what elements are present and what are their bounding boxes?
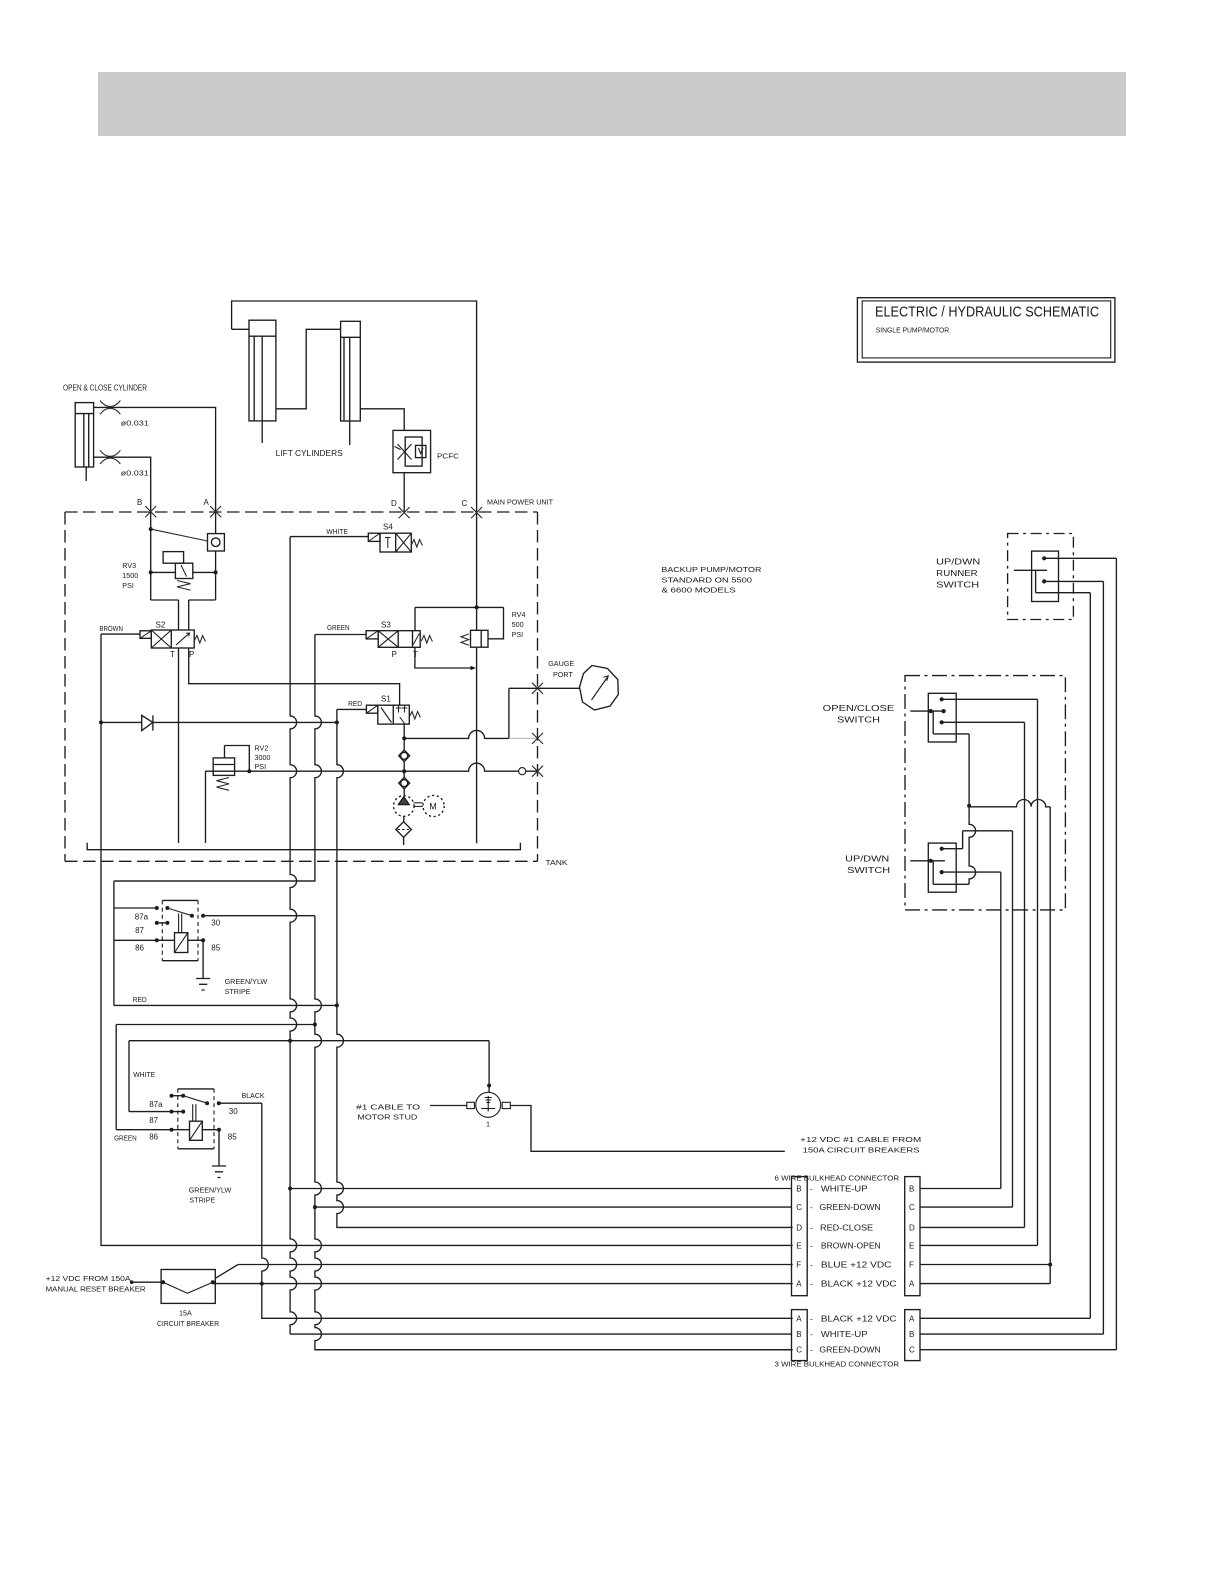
svg-text:PSI: PSI	[512, 630, 524, 639]
RV2 spring	[217, 778, 230, 791]
svg-text:RV2: RV2	[255, 744, 269, 753]
main power unit dashed enclosure	[65, 512, 538, 861]
svg-text:ø0.031: ø0.031	[121, 469, 149, 478]
runner switch pole	[1014, 570, 1090, 592]
connector J4 right body	[905, 1310, 920, 1361]
svg-text:C: C	[796, 1203, 802, 1212]
wire black 30 lead	[219, 1102, 262, 1104]
svg-text:PSI: PSI	[255, 762, 267, 771]
tank port circle	[519, 768, 526, 775]
connector J2 right body	[905, 1177, 920, 1296]
svg-text:BLACK +12 VDC: BLACK +12 VDC	[821, 1280, 897, 1289]
relay K1 terminal 87a	[155, 906, 159, 910]
svg-text:86: 86	[149, 1133, 158, 1142]
S4 spring	[411, 540, 422, 548]
port marker A	[210, 506, 221, 517]
pilot diagonal to check valve	[151, 529, 208, 541]
svg-text:15A: 15A	[179, 1309, 192, 1318]
wire white solenoid lead	[290, 536, 368, 538]
svg-text:B: B	[909, 1330, 914, 1339]
relay K1 arm	[167, 908, 192, 916]
wire S2 pressure line	[189, 648, 400, 705]
svg-text:BLACK +12 VDC: BLACK +12 VDC	[821, 1314, 897, 1323]
node dot red feed	[335, 1003, 339, 1007]
flow control PCFC	[393, 430, 431, 472]
ground GND2	[212, 1166, 226, 1178]
relief valve RV2	[213, 746, 249, 776]
svg-text:PCFC: PCFC	[437, 452, 459, 461]
svg-text:D: D	[391, 499, 397, 508]
solenoid valve S2	[140, 630, 194, 648]
title block	[857, 298, 1115, 362]
svg-text:+12 VDC #1 CABLE FROM: +12 VDC #1 CABLE FROM	[800, 1135, 921, 1144]
svg-text:86: 86	[135, 944, 144, 953]
wire J2 pin F	[920, 1264, 1050, 1266]
check valve CV1	[208, 534, 225, 551]
wire F line left	[238, 1264, 793, 1266]
filter F1	[396, 822, 412, 838]
svg-text:E: E	[796, 1241, 801, 1250]
wire up/dwn NO to J2C	[942, 831, 1013, 1207]
svg-text:-: -	[810, 1330, 813, 1339]
node dot black A junction	[260, 1282, 264, 1286]
wire PCFC to D	[403, 473, 405, 512]
RV3 spring	[177, 581, 191, 591]
node dot stud top	[487, 1084, 491, 1088]
svg-text:#1 CABLE TO: #1 CABLE TO	[356, 1103, 421, 1112]
wire breaker to F diagonal	[215, 1265, 238, 1279]
orifice symbol 1	[100, 401, 120, 415]
wire B line inside unit	[150, 512, 152, 600]
svg-text:WHITE-UP: WHITE-UP	[821, 1185, 868, 1194]
relay K1 terminal 30	[190, 914, 194, 918]
svg-text:GREEN-DOWN: GREEN-DOWN	[819, 1346, 881, 1355]
wire runner NO to J4C	[1044, 558, 1116, 1349]
port marker gauge	[532, 683, 543, 694]
svg-text:A: A	[909, 1280, 915, 1289]
wire relay K1 30 to green column	[203, 915, 315, 917]
wire white horizontal to stud	[129, 1040, 489, 1042]
svg-text:A: A	[796, 1314, 802, 1323]
svg-text:BLUE +12 VDC: BLUE +12 VDC	[821, 1261, 892, 1270]
svg-text:S1: S1	[381, 695, 391, 704]
header gray bar	[98, 72, 1126, 136]
lift cylinder 1	[249, 320, 276, 443]
wire up/dwn NC to J2B	[942, 872, 1001, 1188]
wire green lower vertical	[315, 916, 793, 1350]
port marker C	[471, 507, 482, 518]
wire J2 pin A	[920, 1265, 1050, 1284]
diode D1	[101, 715, 337, 730]
wire S3 tank loop	[415, 647, 471, 668]
svg-text:RED-CLOSE: RED-CLOSE	[820, 1223, 873, 1232]
solenoid valve S4	[368, 533, 411, 552]
node dot brown diode	[99, 720, 103, 724]
wire J1 pin C left	[315, 1206, 792, 1208]
svg-text:BLACK: BLACK	[242, 1091, 265, 1100]
runner switch contacts	[1042, 556, 1046, 560]
svg-text:E: E	[909, 1241, 914, 1250]
svg-text:RUNNER: RUNNER	[936, 569, 978, 578]
svg-text:WHITE: WHITE	[326, 527, 348, 536]
svg-text:C: C	[909, 1346, 915, 1355]
svg-text:500: 500	[512, 620, 524, 629]
node dot RV2 pilot	[247, 769, 251, 773]
port marker drain	[532, 733, 543, 744]
RV4 spring	[461, 634, 469, 645]
svg-text:A: A	[204, 498, 210, 507]
svg-text:F: F	[796, 1261, 801, 1270]
wire open/close NC to J2D	[942, 722, 1025, 1227]
wire J3 pin C left	[315, 1349, 792, 1351]
wire J1 pin B left	[290, 1188, 791, 1190]
wire relay K2 feed top	[116, 1024, 315, 1026]
wire RV2 drain drop	[205, 771, 207, 843]
connector J1 left body	[792, 1177, 808, 1296]
relief valve RV4	[415, 607, 504, 647]
pump shaft	[414, 803, 423, 807]
relay K2 terminal 87a	[172, 1095, 184, 1097]
wire J2 pin B	[920, 1188, 1001, 1190]
wire relay K2 left vertical	[115, 1025, 117, 1130]
wire open/close common down	[968, 734, 970, 806]
open/close pole	[910, 711, 969, 734]
wire white drop to relay K2	[129, 1041, 183, 1112]
wire brown solenoid lead	[101, 633, 140, 635]
svg-text:RV4: RV4	[512, 610, 526, 619]
svg-text:SWITCH: SWITCH	[837, 716, 880, 725]
svg-text:ø0.031: ø0.031	[121, 419, 149, 428]
svg-text:PORT: PORT	[553, 670, 573, 679]
wire S2 tank drain	[178, 648, 180, 843]
svg-text:STRIPE: STRIPE	[189, 1196, 215, 1205]
up/dwn pole	[910, 861, 945, 885]
svg-text:A: A	[909, 1314, 915, 1323]
node dot white junction	[288, 1039, 292, 1043]
svg-text:87: 87	[135, 926, 144, 935]
svg-text:GAUGE: GAUGE	[548, 659, 574, 668]
svg-text:30: 30	[229, 1107, 238, 1116]
svg-text:-: -	[810, 1314, 813, 1323]
svg-text:OPEN/CLOSE: OPEN/CLOSE	[823, 704, 895, 713]
lift cylinders manifold box	[232, 301, 477, 512]
svg-text:SWITCH: SWITCH	[847, 866, 890, 875]
svg-text:A: A	[796, 1280, 802, 1289]
relief valve RV3	[151, 552, 216, 600]
wire J2 pin E	[920, 1244, 1038, 1246]
svg-text:P: P	[189, 650, 194, 659]
wire red solenoid lead	[337, 708, 367, 710]
svg-text:3000: 3000	[255, 753, 271, 762]
wire J3 pin B left	[290, 1333, 791, 1335]
wire faint drain stub	[509, 737, 538, 739]
svg-text:-: -	[810, 1203, 813, 1212]
svg-text:WHITE: WHITE	[133, 1070, 155, 1079]
svg-text:S3: S3	[381, 621, 391, 630]
open/close cylinder	[75, 403, 93, 481]
wire breaker input	[132, 1281, 161, 1283]
svg-text:SWITCH: SWITCH	[936, 581, 979, 590]
wire J4 pin A	[920, 1317, 1090, 1319]
S2 spring	[194, 636, 205, 644]
svg-text:1: 1	[486, 1120, 490, 1129]
control switches dash-dot box	[905, 676, 1065, 910]
svg-text:C: C	[462, 499, 468, 508]
svg-text:UP/DWN: UP/DWN	[845, 855, 889, 864]
wire green solenoid lead	[315, 634, 366, 636]
svg-text:GREEN: GREEN	[327, 623, 350, 632]
relay K2 coil	[190, 1104, 203, 1140]
wire white vertical main run	[290, 537, 297, 1335]
svg-text:C: C	[909, 1203, 915, 1212]
svg-text:CIRCUIT BREAKER: CIRCUIT BREAKER	[157, 1319, 219, 1328]
svg-text:BROWN: BROWN	[99, 624, 123, 633]
node dot RV3 left	[149, 570, 153, 574]
svg-text:85: 85	[211, 944, 220, 953]
wire relay K1 left vertical	[113, 881, 115, 1005]
runner switch dashed box	[1008, 534, 1074, 620]
svg-text:87a: 87a	[149, 1100, 163, 1109]
relay K2 box	[178, 1089, 214, 1149]
wire common to F column	[969, 800, 1050, 1265]
relay K2 terminal 87	[170, 1110, 174, 1114]
wire black vertical	[262, 1103, 793, 1318]
svg-text:30: 30	[211, 919, 220, 928]
svg-text:GREEN/YLW: GREEN/YLW	[225, 977, 268, 986]
wire D line S1 to pump	[403, 724, 405, 796]
svg-text:MAIN POWER UNIT: MAIN POWER UNIT	[487, 498, 554, 507]
svg-text:GREEN-DOWN: GREEN-DOWN	[819, 1203, 881, 1212]
svg-text:B: B	[796, 1185, 801, 1194]
svg-text:RED: RED	[133, 995, 147, 1004]
node dot common junction	[967, 804, 971, 808]
node dot white pin B	[288, 1187, 292, 1191]
S3 spring	[421, 636, 432, 644]
wire stud to breaker cable	[510, 1106, 785, 1152]
solenoid valve S1	[366, 705, 409, 724]
wire red relay feed	[114, 1004, 337, 1006]
wire relay K2 86 lead	[116, 1129, 189, 1131]
tank symbol	[87, 843, 520, 850]
relay K2 arm	[183, 1096, 207, 1104]
motor M1	[423, 795, 444, 816]
relay K1 coil	[175, 914, 188, 953]
wire J2 pin C	[920, 1206, 1013, 1208]
runner switch body	[1032, 551, 1059, 601]
wire brown vertical to connector E	[101, 634, 793, 1245]
svg-text:WHITE-UP: WHITE-UP	[821, 1330, 868, 1339]
svg-text:T: T	[170, 650, 175, 659]
svg-text:MANUAL RESET BREAKER: MANUAL RESET BREAKER	[46, 1285, 146, 1294]
svg-text:& 6600 MODELS: & 6600 MODELS	[661, 586, 736, 595]
wire green upper vertical	[114, 635, 322, 882]
svg-text:-: -	[810, 1280, 813, 1289]
svg-text:-: -	[810, 1185, 813, 1194]
wire stud label lead	[430, 1105, 467, 1107]
circuit breaker CB1	[161, 1270, 215, 1304]
svg-text:LIFT CYLINDERS: LIFT CYLINDERS	[276, 449, 343, 458]
node dot B pilot	[149, 527, 153, 531]
node dot D gauge branch	[402, 736, 406, 740]
svg-text:B: B	[909, 1185, 914, 1194]
svg-text:SINGLE PUMP/MOTOR: SINGLE PUMP/MOTOR	[876, 326, 950, 335]
wire common continued to updwn pole	[933, 806, 975, 885]
node dot diode red	[335, 720, 339, 724]
svg-text:-: -	[810, 1346, 813, 1355]
node dot K2 feed green	[313, 1023, 317, 1027]
wire relay K1 85 to ground	[188, 940, 203, 978]
svg-text:STANDARD ON 5500: STANDARD ON 5500	[661, 575, 752, 584]
wire pump suction	[403, 816, 405, 845]
wire runner NC to J4B	[1044, 581, 1103, 1334]
svg-text:S2: S2	[156, 621, 166, 630]
svg-text:-: -	[810, 1241, 813, 1250]
svg-text:C: C	[796, 1346, 802, 1355]
svg-text:S4: S4	[383, 523, 393, 532]
wire RV3 to S2 drops	[179, 600, 189, 630]
wire open/close NO to J2E	[942, 699, 1038, 1245]
wire A line inside unit	[215, 512, 217, 600]
svg-text:P: P	[392, 650, 397, 659]
svg-text:-: -	[810, 1223, 813, 1232]
wire relay K1 feed top	[114, 880, 315, 882]
check valve ball lower	[399, 777, 410, 789]
wire cylinder port A	[94, 407, 216, 512]
wire runner common to J4A	[1089, 593, 1091, 1319]
svg-text:GREEN/YLW: GREEN/YLW	[189, 1186, 232, 1195]
S1 spring	[409, 712, 420, 720]
port marker D	[399, 507, 410, 518]
wire cyl1 to cyl2	[276, 329, 341, 409]
svg-text:F: F	[909, 1261, 914, 1270]
svg-text:85: 85	[228, 1133, 237, 1142]
wire relay K1 87a lead	[114, 907, 157, 909]
relay K1 box	[162, 900, 198, 960]
wire red vertical main run	[337, 709, 793, 1227]
svg-text:B: B	[796, 1330, 801, 1339]
orifice symbol 2	[100, 450, 120, 464]
arrow into C line	[471, 666, 477, 670]
svg-text:BROWN-OPEN: BROWN-OPEN	[821, 1241, 881, 1250]
svg-text:PSI: PSI	[122, 581, 134, 590]
up/dwn switch body	[928, 843, 956, 892]
wire J4 pin C	[920, 1349, 1116, 1351]
lift cylinder 2	[341, 321, 361, 445]
svg-text:UP/DWN: UP/DWN	[936, 558, 980, 567]
check valve ball upper	[399, 750, 410, 762]
open/close contacts	[940, 697, 944, 701]
svg-text:1500: 1500	[122, 571, 138, 580]
svg-text:BACKUP PUMP/MOTOR: BACKUP PUMP/MOTOR	[661, 565, 761, 574]
svg-text:ELECTRIC / HYDRAULIC SCHEMATIC: ELECTRIC / HYDRAULIC SCHEMATIC	[875, 305, 1099, 321]
svg-text:D: D	[796, 1223, 802, 1232]
svg-text:TANK: TANK	[546, 858, 568, 867]
solenoid valve S3	[366, 631, 420, 648]
node dot green pin C	[313, 1205, 317, 1209]
wire C line vertical	[476, 512, 478, 843]
node dot RV4 C	[475, 605, 479, 609]
svg-text:+12 VDC FROM 150A: +12 VDC FROM 150A	[46, 1274, 131, 1283]
svg-text:STRIPE: STRIPE	[225, 987, 251, 996]
open/close switch body	[928, 693, 956, 742]
svg-text:OPEN & CLOSE CYLINDER: OPEN & CLOSE CYLINDER	[63, 384, 147, 393]
wire relay K2 85 to ground	[202, 1130, 219, 1166]
motor stud MS1	[467, 1041, 511, 1118]
wire breaker output A line	[213, 1283, 793, 1285]
svg-text:RV3: RV3	[122, 561, 136, 570]
svg-text:-: -	[810, 1261, 813, 1270]
wire cylinder port B	[94, 457, 151, 512]
node dot RV3 right	[214, 570, 218, 574]
svg-text:GREEN: GREEN	[114, 1134, 137, 1143]
svg-text:D: D	[909, 1223, 915, 1232]
connector J3 left body	[792, 1310, 808, 1361]
wire relay K1 86 lead	[114, 939, 175, 941]
wire gauge line	[509, 687, 580, 689]
breaker terminal dots	[161, 1280, 165, 1284]
svg-text:MOTOR STUD: MOTOR STUD	[357, 1113, 417, 1122]
wire cyl2 to PCFC	[360, 409, 404, 431]
wire RV2 tank line	[206, 763, 537, 771]
pump P1	[394, 796, 415, 817]
svg-text:B: B	[137, 498, 142, 507]
port marker B	[145, 506, 156, 517]
port marker tank return	[532, 766, 543, 777]
svg-text:RED: RED	[348, 699, 362, 708]
svg-text:150A CIRCUIT BREAKERS: 150A CIRCUIT BREAKERS	[803, 1145, 920, 1154]
svg-text:87a: 87a	[135, 913, 149, 922]
svg-text:87: 87	[149, 1116, 158, 1125]
svg-text:6 WIRE BULKHEAD CONNECTOR: 6 WIRE BULKHEAD CONNECTOR	[775, 1174, 900, 1183]
up/dwn contacts	[940, 847, 944, 851]
node dot RV2 D junction	[402, 769, 406, 773]
wire gauge drain branch	[404, 688, 509, 738]
pressure gauge G1	[580, 666, 619, 711]
relay K2 terminal 30	[205, 1101, 209, 1105]
svg-text:M: M	[429, 802, 437, 812]
node dot F junction	[1048, 1263, 1052, 1267]
wire J4 pin B	[920, 1333, 1103, 1335]
ground GND1	[196, 979, 210, 991]
wire J2 pin D	[920, 1226, 1025, 1228]
relay K1 87 stub	[157, 922, 168, 924]
